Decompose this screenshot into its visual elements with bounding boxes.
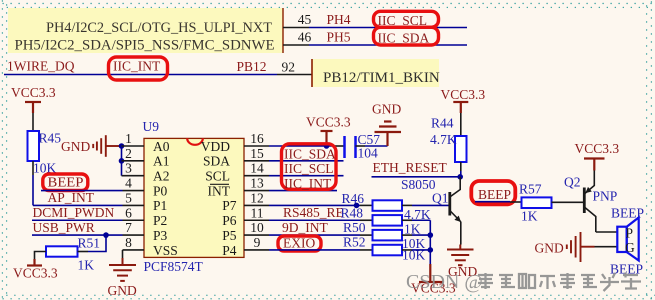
net label IIC_INT (red highlight box) bbox=[109, 57, 168, 80]
svg-text:Q1: Q1 bbox=[432, 191, 449, 206]
svg-text:13: 13 bbox=[250, 176, 264, 191]
svg-text:VCC3.3: VCC3.3 bbox=[11, 85, 56, 100]
power VCC3.3 (bottom-left) bbox=[27, 259, 42, 266]
ground GND (A0-A2, rotated left) bbox=[61, 135, 122, 157]
resistor R48 bbox=[341, 206, 421, 237]
svg-text:GND: GND bbox=[61, 139, 90, 154]
svg-text:IIC_INT: IIC_INT bbox=[284, 176, 332, 191]
svg-text:1: 1 bbox=[125, 131, 132, 146]
svg-text:Q2: Q2 bbox=[564, 175, 581, 190]
junction VCC pin16 bbox=[324, 143, 330, 149]
svg-text:PH5: PH5 bbox=[327, 30, 351, 45]
pin 45 PH4 bbox=[283, 12, 351, 28]
svg-text:SDA: SDA bbox=[203, 154, 230, 169]
junction pin12 wire bbox=[354, 203, 360, 209]
net label IIC_SDA (red highlight box) bbox=[374, 27, 439, 45]
svg-text:VDD: VDD bbox=[201, 139, 230, 154]
wire R52 to VCC bus bbox=[402, 249, 430, 251]
svg-text:9: 9 bbox=[254, 235, 261, 250]
svg-text:PH4: PH4 bbox=[327, 12, 351, 27]
power VCC3.3 (Q2 emitter) bbox=[575, 141, 620, 171]
resistor R46 bbox=[342, 191, 431, 222]
net label BEEP (red highlight box, right) bbox=[471, 181, 515, 204]
wire pin16 to C57 bbox=[269, 145, 335, 147]
svg-text:1K: 1K bbox=[78, 258, 95, 273]
wire R51 right to USB_PWR bbox=[78, 235, 107, 251]
svg-text:R52: R52 bbox=[343, 235, 366, 250]
wire VSS pin8 down bbox=[122, 250, 124, 258]
svg-text:VCC3.3: VCC3.3 bbox=[441, 87, 486, 102]
wire R50 to VCC bus bbox=[402, 234, 430, 236]
svg-text:2: 2 bbox=[125, 146, 132, 161]
svg-text:GND: GND bbox=[108, 283, 137, 298]
svg-text:R51: R51 bbox=[78, 236, 101, 251]
resistor R51 bbox=[46, 236, 100, 273]
chip left pin numbers bbox=[125, 131, 132, 250]
svg-text:P2: P2 bbox=[153, 213, 167, 228]
svg-text:GND: GND bbox=[535, 241, 564, 256]
svg-text:16: 16 bbox=[250, 131, 264, 146]
svg-text:IIC_SDA: IIC_SDA bbox=[284, 146, 336, 161]
svg-text:R48: R48 bbox=[341, 206, 364, 221]
svg-text:AP_INT: AP_INT bbox=[48, 190, 95, 205]
svg-text:VSS: VSS bbox=[153, 243, 178, 258]
svg-text:VCC3.3: VCC3.3 bbox=[306, 115, 351, 130]
svg-text:DCMI_PWDN: DCMI_PWDN bbox=[33, 205, 115, 220]
svg-text:3: 3 bbox=[125, 161, 132, 176]
svg-text:R46: R46 bbox=[342, 191, 365, 206]
port box PB12/TIM1_BKIN bbox=[312, 59, 440, 87]
wire R44 to ETH_RESET bbox=[460, 162, 462, 177]
pin 46 PH5 bbox=[283, 30, 351, 46]
svg-text:15: 15 bbox=[250, 146, 264, 161]
svg-text:9D_INT: 9D_INT bbox=[282, 220, 328, 235]
wire 1WIRE_DQ / IIC_INT row bbox=[4, 74, 277, 76]
resistor R57 bbox=[519, 182, 552, 224]
svg-text:P3: P3 bbox=[153, 228, 168, 243]
svg-text:6: 6 bbox=[125, 205, 132, 220]
capacitor C57 bbox=[335, 132, 380, 161]
chip right pin numbers bbox=[250, 131, 264, 250]
svg-text:VCC3.3: VCC3.3 bbox=[575, 141, 620, 156]
svg-text:USB_PWR: USB_PWR bbox=[33, 220, 95, 235]
ground GND (speaker, rotated left) bbox=[535, 232, 595, 262]
svg-text:1WIRE_DQ: 1WIRE_DQ bbox=[7, 59, 75, 74]
svg-text:A0: A0 bbox=[153, 139, 170, 154]
ground GND (Q1) bbox=[447, 245, 477, 280]
svg-text:SCL: SCL bbox=[205, 169, 230, 184]
wire pin12 to R46 bbox=[269, 204, 373, 206]
ground GND (C57, pointing up) bbox=[372, 102, 401, 147]
wire IIC_INT pin13 bbox=[269, 190, 337, 192]
wire pin9 to R52 bbox=[269, 249, 373, 251]
svg-text:EXIO: EXIO bbox=[283, 236, 315, 251]
chip notch bbox=[187, 138, 203, 144]
wire pin10 to R50 bbox=[269, 234, 373, 236]
svg-text:PNP: PNP bbox=[593, 189, 618, 204]
transistor Q1 bbox=[432, 177, 461, 222]
svg-text:IIC_INT: IIC_INT bbox=[113, 59, 161, 74]
svg-text:G: G bbox=[625, 240, 635, 255]
svg-text:1K: 1K bbox=[521, 209, 538, 224]
wire R57 to Q2 base bbox=[552, 201, 584, 203]
svg-text:4: 4 bbox=[125, 176, 132, 191]
svg-text:92: 92 bbox=[282, 60, 296, 75]
INT overline bbox=[210, 183, 229, 185]
svg-text:P6: P6 bbox=[222, 213, 237, 228]
svg-text:P7: P7 bbox=[222, 198, 237, 213]
MCU port box (top-left yellow) bbox=[8, 8, 283, 54]
junction R52/bus bbox=[428, 247, 434, 253]
chip left pins 1-8 bbox=[122, 146, 145, 250]
wire IIC_SDA pin15 bbox=[269, 160, 344, 162]
speaker BEEP bbox=[610, 206, 644, 277]
resistor R52 bbox=[343, 235, 426, 263]
svg-text:1K: 1K bbox=[404, 222, 421, 237]
svg-text:PH5/I2C2_SDA/SPI5_NSS/FMC_SDNW: PH5/I2C2_SDA/SPI5_NSS/FMC_SDNWE bbox=[15, 38, 275, 54]
svg-text:4.7K: 4.7K bbox=[430, 132, 457, 147]
svg-text:11: 11 bbox=[251, 205, 264, 220]
svg-text:VCC3.3: VCC3.3 bbox=[13, 266, 58, 281]
pin 92 PB12 bbox=[237, 59, 313, 75]
svg-text:P1: P1 bbox=[153, 198, 167, 213]
svg-text:10: 10 bbox=[250, 220, 264, 235]
ground GND (VSS) bbox=[108, 258, 137, 298]
svg-text:S8050: S8050 bbox=[401, 177, 436, 192]
wire VCC to R44 bbox=[460, 113, 462, 136]
watermark CSDN bbox=[406, 271, 641, 293]
svg-text:R44: R44 bbox=[431, 116, 454, 131]
svg-text:IIC_SDA: IIC_SDA bbox=[378, 31, 430, 46]
svg-text:BEEP: BEEP bbox=[48, 174, 84, 189]
wire R48 to VCC bus bbox=[402, 219, 430, 221]
wire BEEP to R57 bbox=[475, 201, 522, 203]
svg-text:P0: P0 bbox=[153, 183, 168, 198]
svg-text:PB12/TIM1_BKIN: PB12/TIM1_BKIN bbox=[323, 70, 440, 86]
svg-text:P5: P5 bbox=[222, 228, 237, 243]
wire AP_INT pin5 bbox=[33, 204, 123, 206]
transistor Q2 bbox=[564, 171, 617, 233]
wire C57 to GND bbox=[365, 145, 388, 147]
net label BEEP (red highlight box, pin4) bbox=[43, 174, 88, 191]
junction A0 bbox=[119, 143, 125, 149]
chip U9 PCF8574T bbox=[143, 119, 245, 274]
svg-text:PCF8574T: PCF8574T bbox=[144, 259, 204, 274]
svg-text:P4: P4 bbox=[222, 243, 237, 258]
svg-text:ETH_RESET: ETH_RESET bbox=[373, 160, 448, 175]
svg-text:R57: R57 bbox=[519, 182, 542, 197]
svg-text:A1: A1 bbox=[153, 154, 170, 169]
wire R45 to AP_INT row bbox=[32, 161, 34, 205]
svg-text:14: 14 bbox=[250, 161, 264, 176]
wire IIC_SDA bbox=[309, 44, 467, 46]
wire R51 left to VCC bbox=[35, 252, 47, 260]
svg-text:8: 8 bbox=[125, 235, 132, 250]
resistor R44 bbox=[430, 116, 467, 163]
svg-text:R50: R50 bbox=[343, 220, 366, 235]
svg-text:BEEP: BEEP bbox=[478, 187, 511, 202]
svg-text:R45: R45 bbox=[39, 131, 62, 146]
svg-text:P: P bbox=[626, 226, 634, 241]
svg-text:12: 12 bbox=[250, 190, 264, 205]
svg-text:INT: INT bbox=[208, 183, 231, 198]
svg-text:45: 45 bbox=[298, 12, 312, 27]
power VCC3.3 (pin16) bbox=[306, 115, 351, 147]
wire pin11 to R48 bbox=[269, 219, 373, 221]
power VCC3.3 (R44 top) bbox=[441, 87, 486, 113]
svg-text:46: 46 bbox=[298, 30, 312, 45]
svg-text:CSDN @: CSDN @ bbox=[406, 271, 483, 293]
wire Q1 emitter to GND bbox=[460, 222, 462, 245]
svg-text:A2: A2 bbox=[153, 169, 170, 184]
wire IIC_SCL pin14 bbox=[269, 175, 344, 177]
junction R50/bus bbox=[428, 232, 434, 238]
svg-text:PH4/I2C2_SCL/OTG_HS_ULPI_NXT: PH4/I2C2_SCL/OTG_HS_ULPI_NXT bbox=[46, 20, 272, 36]
wire ETH_RESET bbox=[372, 176, 461, 178]
svg-text:PB12: PB12 bbox=[237, 59, 267, 74]
junction ETH_RESET/R44 bbox=[457, 174, 463, 180]
resistor R45 bbox=[28, 131, 62, 176]
chip right pin names bbox=[201, 139, 237, 258]
wire Q2 collector to speaker bbox=[596, 231, 618, 233]
wire USB_PWR pin7 bbox=[32, 234, 123, 236]
svg-text:GND: GND bbox=[372, 102, 401, 117]
net label EXIO (red highlight box) bbox=[278, 236, 321, 252]
wire DCMI_PWDN pin6 bbox=[32, 219, 123, 221]
svg-text:U9: U9 bbox=[143, 119, 160, 134]
chip left pin names bbox=[153, 139, 178, 258]
svg-text:7: 7 bbox=[125, 220, 132, 235]
junction A1 bbox=[119, 158, 125, 164]
svg-text:5: 5 bbox=[125, 190, 132, 205]
wire BEEP pin4 bbox=[41, 190, 123, 192]
power VCC3.3 (top-left, feeds R45) bbox=[25, 102, 41, 113]
svg-text:IIC_SCL: IIC_SCL bbox=[284, 161, 334, 176]
wire VCC to R45 bbox=[32, 113, 34, 131]
svg-text:104: 104 bbox=[358, 146, 379, 161]
net labels IIC_SDA/IIC_SCL/IIC_INT (red highlight box) bbox=[282, 144, 337, 191]
net label IIC_SCL (red highlight box) bbox=[374, 11, 439, 28]
resistor R50 bbox=[343, 220, 426, 251]
wire R46 to Q1 base bbox=[402, 204, 449, 206]
wire bus A0-A2 bbox=[121, 146, 123, 176]
wire IIC_SCL bbox=[309, 27, 467, 29]
wire GND to speaker G bbox=[595, 246, 618, 248]
junction USB_PWR / R51 bbox=[103, 232, 109, 238]
chip right pins 16-9 bbox=[244, 146, 269, 250]
svg-text:RS485_RE: RS485_RE bbox=[283, 205, 344, 220]
power VCC3.3 (below resistor bank) bbox=[411, 264, 456, 296]
wire VCC bus vertical bbox=[429, 220, 431, 264]
